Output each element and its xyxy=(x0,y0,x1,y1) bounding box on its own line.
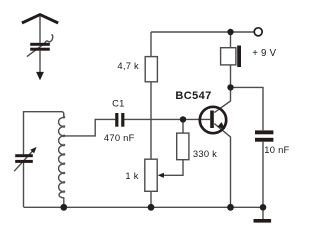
svg-text:1 k: 1 k xyxy=(125,170,138,181)
svg-text:BC547: BC547 xyxy=(175,90,211,102)
svg-text:470 nF: 470 nF xyxy=(104,132,135,143)
svg-text:+ 9 V: + 9 V xyxy=(252,48,276,59)
svg-text:330 k: 330 k xyxy=(193,148,217,159)
svg-text:C1: C1 xyxy=(112,97,124,108)
svg-text:4,7 k: 4,7 k xyxy=(117,60,139,71)
svg-text:10 nF: 10 nF xyxy=(264,144,289,155)
